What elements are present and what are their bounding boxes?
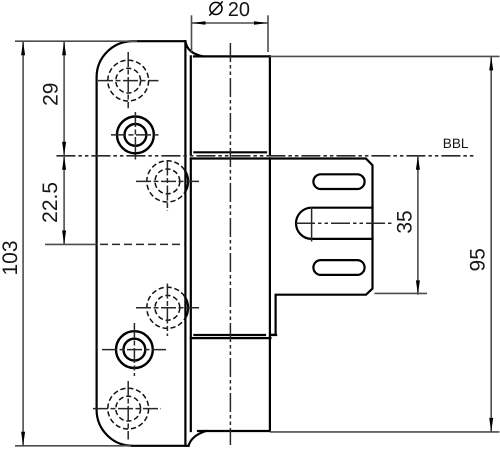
dashed screw hole top — [108, 60, 149, 101]
barrel top edge — [194, 55, 270, 57]
crosshair lower-middle hole — [136, 284, 199, 337]
crosshair top hole — [98, 52, 159, 108]
lower oblong slot — [313, 260, 364, 275]
barrel center line — [229, 43, 231, 445]
knuckle joint bottom inset line — [194, 334, 265, 336]
dimension 29 — [40, 41, 67, 156]
edge arc bump upper — [185, 171, 188, 191]
svg-text:29: 29 — [40, 83, 63, 106]
barrel left edge — [190, 56, 192, 431]
lower bushing ring inner — [123, 339, 145, 361]
upper oblong slot — [313, 174, 364, 189]
hidden edge dashed line at 22.5 — [100, 243, 185, 245]
plate-to-barrel transition curve bottom — [189, 431, 207, 446]
dashed screw hole bottom — [108, 388, 149, 429]
edge arc bump lower — [185, 298, 188, 318]
dimension 35 — [375, 156, 428, 295]
barrel right edge — [269, 56, 271, 431]
upper bushing ring inner — [124, 124, 146, 146]
frame-leaf plate outline — [97, 41, 189, 446]
svg-text:20: 20 — [228, 0, 250, 21]
extension line bottom left — [15, 445, 131, 447]
crosshair bottom hole — [93, 381, 161, 440]
extension line top left — [15, 40, 137, 42]
barrel bottom edge — [198, 430, 270, 432]
dashed screw hole upper-middle — [147, 161, 188, 202]
dashed screw hole lower-middle — [147, 287, 188, 328]
plate-to-barrel transition curve top — [185, 41, 203, 56]
crosshair upper ring — [111, 112, 160, 162]
extension line 22.5 bottom — [45, 243, 97, 245]
knuckle joint top inset line — [194, 151, 266, 153]
bottom knuckle top edge — [191, 337, 271, 339]
crosshair upper-middle hole — [136, 161, 199, 212]
crosshair lower ring — [102, 323, 166, 376]
svg-text:95: 95 — [466, 248, 489, 271]
svg-text:103: 103 — [0, 240, 22, 275]
BBL center line — [56, 155, 473, 157]
svg-text:22.5: 22.5 — [39, 182, 62, 223]
dimension 22.5 — [39, 156, 66, 245]
lower bushing ring outer — [116, 331, 153, 368]
dimension 95 — [270, 56, 500, 432]
svg-text:35: 35 — [394, 210, 417, 233]
dimension 103 — [0, 41, 25, 446]
upper bushing ring outer — [117, 116, 154, 153]
dimension diameter 20 — [192, 0, 269, 52]
U-shaped horizontal slot in door leaf — [296, 208, 373, 239]
door-leaf plate outline — [191, 159, 373, 335]
U-slot center line — [296, 222, 394, 224]
knuckle joint bottom connector — [270, 334, 276, 336]
svg-text:BBL: BBL — [443, 136, 469, 151]
crosshair U-slot — [311, 207, 313, 242]
